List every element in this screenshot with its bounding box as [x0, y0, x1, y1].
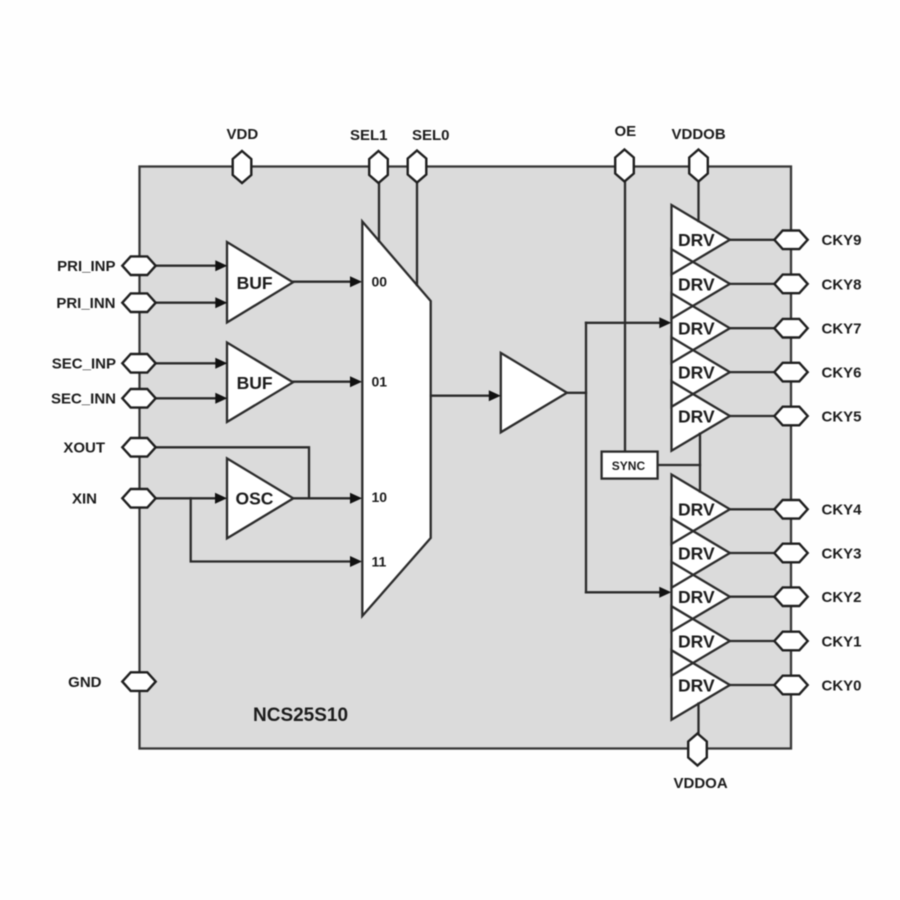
pin CKY8: [774, 275, 807, 294]
central buffer: [501, 353, 567, 432]
pin SEC_INN: [122, 389, 155, 408]
pin VDD: [233, 151, 252, 183]
wire OE to SYNC: [624, 182, 626, 452]
pin CKY4: [774, 500, 807, 519]
svg-text:CKY7: CKY7: [822, 321, 862, 338]
wire SEC_INP to BUF2: [156, 362, 217, 364]
svg-text:SEL0: SEL0: [412, 127, 450, 144]
wire DRV to CKY4: [730, 508, 774, 510]
svg-text:DRV: DRV: [678, 363, 715, 383]
SYNC block: [602, 452, 658, 479]
svg-text:DRV: DRV: [678, 274, 715, 294]
pin PRI_INN: [122, 293, 155, 312]
svg-text:NCS25S10: NCS25S10: [253, 705, 348, 726]
wire DRV to CKY0: [730, 684, 774, 686]
driver DRV CKY3: [672, 518, 730, 588]
wire VDDOB to upper DRV bank: [697, 182, 699, 222]
driver DRV CKY2: [672, 562, 730, 632]
pin CKY3: [774, 544, 807, 563]
pin CKY6: [774, 363, 807, 382]
svg-text:CKY8: CKY8: [822, 276, 862, 293]
svg-text:CKY6: CKY6: [822, 365, 862, 382]
svg-text:10: 10: [372, 489, 388, 505]
wire XIN branch to mux input 11: [191, 498, 352, 561]
pin VDDOA: [688, 734, 707, 766]
driver DRV CKY8: [672, 249, 730, 319]
pin CKY2: [774, 587, 807, 606]
wire DRV to CKY5: [730, 415, 774, 417]
wire VDDOA to lower DRV bank: [697, 704, 699, 735]
svg-text:CKY4: CKY4: [822, 502, 863, 519]
driver DRV CKY1: [672, 606, 730, 676]
pin SEC_INP: [122, 354, 155, 373]
driver DRV CKY4: [672, 475, 730, 545]
svg-text:PRI_INP: PRI_INP: [57, 258, 115, 275]
chip body NCS25S10: [140, 167, 792, 749]
wire SEC_INN to BUF2: [156, 397, 217, 399]
buffer BUF2 (secondary input): [227, 343, 293, 423]
pin GND: [122, 672, 155, 691]
wire DRV to CKY7: [730, 327, 774, 329]
DRV bank fills: [672, 205, 730, 720]
pin OE: [615, 150, 634, 182]
svg-text:DRV: DRV: [678, 543, 715, 563]
driver DRV CKY7: [672, 293, 730, 363]
svg-text:BUF: BUF: [237, 273, 273, 293]
wire SEL0 into mux: [416, 183, 418, 286]
wire DRV to CKY6: [730, 371, 774, 373]
wire BUF1 output to mux input 00: [293, 281, 351, 283]
svg-text:00: 00: [372, 274, 388, 290]
oscillator OSC: [227, 458, 293, 538]
pin XOUT: [122, 438, 155, 457]
svg-text:XIN: XIN: [72, 491, 97, 508]
svg-text:SYNC: SYNC: [612, 459, 646, 473]
wire trunk to upper DRV bank (CKY7 input): [586, 322, 661, 324]
svg-text:CKY3: CKY3: [822, 545, 862, 562]
pin CKY7: [774, 319, 807, 338]
svg-text:DRV: DRV: [678, 406, 715, 426]
pin SEL1: [369, 151, 388, 183]
wire trunk to lower DRV bank (CKY2 input): [586, 591, 661, 593]
svg-text:DRV: DRV: [678, 631, 715, 651]
wire DRV to CKY9: [730, 239, 774, 241]
wire OSC output to mux input 10: [293, 497, 351, 499]
wire DRV to CKY8: [730, 283, 774, 285]
svg-text:OE: OE: [615, 123, 637, 140]
buffer BUF1 (primary input): [227, 242, 293, 323]
svg-text:VDDOA: VDDOA: [674, 775, 728, 792]
pin SEL0: [408, 151, 427, 183]
pin CKY9: [774, 231, 807, 250]
wire XOUT to oscillator output node: [156, 447, 309, 498]
svg-text:BUF: BUF: [237, 373, 273, 393]
wire DRV to CKY1: [730, 640, 774, 642]
wire PRI_INN to BUF1: [156, 302, 217, 304]
pin PRI_INP: [122, 256, 155, 275]
svg-text:SEL1: SEL1: [350, 127, 388, 144]
driver DRV CKY9: [672, 205, 730, 275]
svg-text:DRV: DRV: [678, 587, 715, 607]
svg-text:CKY1: CKY1: [822, 633, 862, 650]
svg-text:DRV: DRV: [678, 500, 715, 520]
svg-text:CKY5: CKY5: [822, 408, 862, 425]
svg-text:DRV: DRV: [678, 230, 715, 250]
svg-text:11: 11: [372, 553, 387, 569]
svg-text:VDD: VDD: [227, 126, 259, 143]
wire SYNC to inter-bank link: [658, 464, 701, 466]
pin CKY5: [774, 407, 807, 426]
mux (clock select): [362, 222, 430, 617]
wire XIN to OSC: [156, 497, 217, 499]
svg-text:DRV: DRV: [678, 675, 715, 695]
svg-text:SEC_INN: SEC_INN: [51, 391, 116, 408]
wire PRI_INP to BUF1: [156, 265, 217, 267]
svg-text:SEC_INP: SEC_INP: [52, 356, 116, 373]
wire DRV to CKY2: [730, 596, 774, 598]
svg-text:PRI_INN: PRI_INN: [56, 295, 115, 312]
driver DRV CKY6: [672, 337, 730, 407]
wire SEL1 into mux: [378, 183, 380, 242]
svg-text:GND: GND: [68, 674, 102, 691]
svg-text:01: 01: [372, 374, 388, 390]
wire inter-bank link at SYNC: [699, 434, 701, 492]
svg-text:CKY9: CKY9: [822, 232, 862, 249]
svg-text:CKY0: CKY0: [822, 677, 862, 694]
svg-text:XOUT: XOUT: [63, 440, 105, 457]
driver DRV CKY5: [672, 381, 730, 451]
pin CKY1: [774, 632, 807, 651]
svg-text:OSC: OSC: [236, 489, 274, 509]
pin VDDOB: [689, 150, 708, 182]
wire central buffer output trunk: [567, 323, 586, 393]
wire DRV to CKY3: [730, 552, 774, 554]
pin CKY0: [774, 676, 807, 695]
svg-text:VDDOB: VDDOB: [672, 126, 726, 143]
wire mux output to central buffer: [431, 395, 491, 397]
svg-text:DRV: DRV: [678, 319, 715, 339]
driver DRV CKY0: [672, 650, 730, 720]
svg-text:CKY2: CKY2: [822, 589, 862, 606]
wire BUF2 output to mux input 01: [293, 381, 351, 383]
pin XIN: [122, 489, 155, 508]
